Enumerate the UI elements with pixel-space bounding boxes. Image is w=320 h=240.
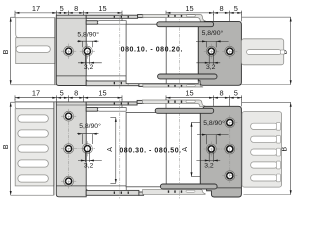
svg-text:B: B — [3, 144, 10, 149]
middle white window top view — [126, 24, 198, 83]
end fork right (top view) — [241, 39, 283, 65]
hatch ticks top rail (bottom view) — [114, 103, 115, 105]
bore label 3,2 right top view — [196, 54, 220, 65]
hole plate2 left (top view) — [204, 44, 219, 59]
dimension line bottom-left — [15, 95, 122, 100]
left link right edge — [54, 18, 56, 85]
upper round rail of plate 2 — [157, 22, 214, 27]
bore label 3,2 left bottom view — [78, 151, 102, 162]
hole plate1 right (top view) — [80, 44, 95, 59]
white tab on outer band 2 bottom (bottom view) — [186, 190, 195, 192]
fork slot — [247, 50, 281, 55]
B dimension left (bottom view) — [10, 102, 16, 195]
white tab bottom — [86, 76, 126, 81]
outer band 2 top (bottom view) — [142, 100, 205, 107]
plate1 vertical centerline (bottom view) — [68, 109, 70, 189]
svg-text:15: 15 — [98, 4, 106, 13]
window divider (bottom view) — [165, 112, 167, 186]
hatch ticks outer band 2 bottom (bottom view) — [168, 190, 169, 192]
svg-text:5,8/90°: 5,8/90° — [203, 119, 225, 127]
svg-text:A: A — [107, 147, 114, 152]
bottom rail band (bottom view) — [86, 190, 139, 195]
baseline bottom edge left (top view) — [11, 84, 57, 86]
plate2 vertical centerline (bottom view) — [229, 115, 231, 183]
svg-text:A: A — [182, 147, 189, 152]
baseline bottom edge left (bottom view) — [11, 194, 54, 196]
holes plate1 (bottom view) — [61, 111, 76, 121]
bore label 3,2 right bottom view — [196, 152, 220, 163]
hatch ticks bottom rail (bottom view) — [114, 192, 115, 194]
step block under top rail — [86, 21, 97, 25]
dimension line bottom-right — [166, 95, 242, 100]
svg-text:5,8/90°: 5,8/90° — [77, 31, 99, 39]
fork mouth opening — [281, 50, 285, 54]
plate2 internal line (bottom view) — [217, 187, 241, 189]
svg-text:B: B — [281, 147, 288, 152]
hatch ticks outer band 2 (bottom view) — [168, 101, 169, 103]
centerline left (bottom view) — [119, 100, 121, 199]
B dimension left (top view) — [10, 17, 16, 85]
white tab on outer band 2 top — [187, 15, 196, 17]
top rail hook — [138, 15, 144, 18]
centerline right (top view) — [178, 15, 180, 89]
dimension line top-left — [15, 11, 122, 16]
svg-text:3,2: 3,2 — [84, 64, 94, 71]
inner link plate 1 (bottom view) — [56, 102, 86, 197]
window divider line — [165, 24, 167, 83]
svg-text:5,8/90°: 5,8/90° — [202, 29, 224, 37]
part top line bottom view — [15, 101, 56, 103]
svg-text:B: B — [3, 49, 10, 54]
outer band 2 bottom strip (bottom view) — [143, 189, 206, 194]
svg-text:17: 17 — [32, 4, 40, 13]
dimension A right (bottom view inner height) — [191, 122, 201, 176]
svg-text:8: 8 — [219, 89, 223, 98]
svg-text:5: 5 — [234, 4, 238, 13]
link plate 2 (top view, dark) — [198, 21, 241, 85]
lower round rail of plate 2 — [158, 74, 217, 79]
svg-text:15: 15 — [185, 89, 193, 98]
outer link flat face (white) bottom view — [15, 102, 54, 109]
svg-text:3,2: 3,2 — [206, 64, 216, 71]
end comb right (bottom view) — [242, 112, 282, 188]
comb slots left bottom view — [18, 115, 48, 122]
svg-text:15: 15 — [185, 4, 193, 13]
link plate 2 (bottom view, dark) — [200, 106, 241, 197]
svg-text:8: 8 — [219, 4, 223, 13]
top rail band of plate 1 — [86, 15, 137, 18]
upper round rail plate2 (bottom view) — [155, 108, 214, 113]
hatch ticks outer band 2 bottom — [168, 85, 169, 87]
baseline bottom edge right (top view) — [241, 84, 290, 86]
hole plate1 left (top view) — [61, 44, 76, 59]
B dimension right (bottom view) — [242, 102, 292, 194]
dimension line top-right — [166, 11, 242, 16]
baseline bottom edge right (bottom view) — [244, 194, 291, 196]
svg-text:17: 17 — [32, 89, 40, 98]
svg-text:5: 5 — [234, 89, 238, 98]
hatch ticks bottom rail — [114, 82, 115, 84]
centerline right (bottom view) — [178, 100, 180, 199]
dimension A left (bottom view inner height) — [110, 118, 116, 184]
bottom rail hook (bottom view) — [139, 192, 144, 195]
middle white window bottom view — [126, 112, 200, 186]
bottom rail band of plate 1 — [86, 81, 139, 86]
plate 1 internal bottom line — [56, 75, 86, 77]
hatch ticks top rail — [114, 16, 115, 18]
top rail band (bottom view) — [86, 102, 137, 105]
extension lines top view — [15, 14, 242, 47]
white tab on outer band 2 (bottom view) — [186, 100, 195, 102]
svg-text:15: 15 — [98, 89, 106, 98]
hole plate2 right (top view) — [222, 44, 237, 59]
outer band 2 bottom strip — [143, 84, 203, 87]
outer link body left (light gray) — [16, 38, 55, 64]
white tab bottom (bottom view) — [86, 186, 126, 190]
B dimension right (top view) — [241, 17, 291, 85]
svg-text:080.30. - 080.50.: 080.30. - 080.50. — [119, 148, 181, 155]
plate1 internal bottom line (bottom view) — [56, 185, 86, 187]
holes plate2 (bottom view) — [222, 118, 237, 128]
svg-text:3,2: 3,2 — [84, 163, 94, 170]
hatch ticks outer band 2 — [168, 15, 169, 17]
left comb right edge — [53, 102, 55, 195]
svg-text:5,8/90°: 5,8/90° — [79, 122, 101, 130]
svg-text:3,2: 3,2 — [204, 163, 214, 170]
top rail hook (bottom view) — [137, 100, 143, 103]
outer band 2 top (next link) — [143, 14, 206, 21]
white tab top — [97, 21, 126, 25]
slot in left link — [16, 46, 50, 53]
bore label 3,2 left top view — [78, 53, 102, 64]
outer comb body left (bottom view) — [15, 109, 54, 186]
lower round rail plate2 (bottom view) — [160, 184, 217, 189]
step block (bottom view) — [86, 108, 97, 112]
white tab top (bottom view) — [97, 108, 126, 112]
centerline left (top view) — [119, 15, 121, 89]
comb slots right bottom view — [251, 122, 281, 181]
white tab on outer band 2 bottom — [187, 85, 196, 87]
inner link plate 1 (top view) — [56, 15, 86, 85]
outer link flat face (white) top view — [16, 18, 55, 38]
extension lines bottom view — [15, 99, 242, 118]
svg-text:5: 5 — [60, 89, 64, 98]
svg-text:8: 8 — [74, 89, 78, 98]
svg-text:080.10. - 080.20.: 080.10. - 080.20. — [121, 47, 183, 54]
svg-text:5: 5 — [60, 4, 64, 13]
bottom rail hook — [139, 83, 144, 86]
svg-text:8: 8 — [74, 4, 78, 13]
